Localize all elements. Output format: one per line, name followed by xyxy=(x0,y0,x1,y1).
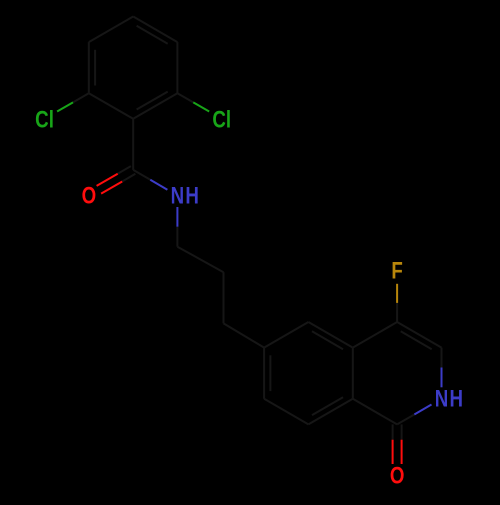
double bond inner C5-C4a xyxy=(312,331,343,349)
atom label Cl2 xyxy=(212,107,231,134)
bond C6-C5 (ring2) xyxy=(264,322,308,348)
bond C2a-Cl2 (half Cl2) xyxy=(193,102,209,111)
double bond inner C4-C3 xyxy=(401,331,432,349)
bond C4-C3 (ring3) xyxy=(397,322,441,348)
double bond C1=O2 line-1 C-half xyxy=(401,424,403,439)
bond C4-F (half C4) xyxy=(396,303,398,322)
bond C(=O)-N1 (half C1p) xyxy=(133,170,150,180)
bond C1a-C(=O) xyxy=(132,119,134,170)
double bond inner C1a-C2a xyxy=(137,92,168,110)
svg-text:N: N xyxy=(171,182,185,209)
bond C3a-C4a (ring1) xyxy=(133,17,177,43)
bond C1a-C2a (ring1) xyxy=(133,93,177,119)
bond C3-N2 (half N2) xyxy=(441,368,443,388)
atom label N2 (NH) xyxy=(435,386,449,413)
double bond C1=O2 line+1 O-half xyxy=(392,440,394,464)
double bond inner C5a-C6a xyxy=(94,50,96,86)
bond C4a-C4 (ring3) xyxy=(353,322,397,348)
bond C3-N2 (half C3) xyxy=(441,348,443,368)
bond CH2a-CH2b xyxy=(177,247,223,273)
bond C2a-Cl2 (half P2) xyxy=(177,93,193,102)
bond N1-CH2a (half A) xyxy=(176,227,178,247)
bond N1-CH2a (half N1) xyxy=(176,207,178,227)
double bond inner C8a-C8 xyxy=(312,397,343,415)
bond C4-F (half F) xyxy=(396,284,398,303)
bond C6a-Cl1 (half P6) xyxy=(73,93,89,102)
double bond C=O1 line+1 O-half xyxy=(97,174,118,186)
atom label Cl1 xyxy=(35,107,54,134)
bond C5a-C6a (ring1) xyxy=(88,42,90,93)
bond C7-C6 (ring2) xyxy=(263,348,265,399)
bond CH2c-C6(ring2) xyxy=(224,323,265,347)
bond C4a-C5a (ring1) xyxy=(89,17,133,43)
atom label F xyxy=(391,257,402,284)
bond C2a-C3a (ring1) xyxy=(176,42,178,93)
svg-text:Cl: Cl xyxy=(35,107,54,134)
bond C8a-C8 (ring2) xyxy=(308,399,352,425)
double bond C1=O2 line-1 O-half xyxy=(401,440,403,464)
svg-text:O: O xyxy=(82,182,97,209)
bond C4a-C8a (ring2) xyxy=(352,348,354,399)
svg-text:F: F xyxy=(391,257,402,284)
svg-text:Cl: Cl xyxy=(212,107,231,134)
double bond C=O1 line-1 O-half xyxy=(101,182,122,194)
double bond C1=O2 line+1 C-half xyxy=(392,424,394,439)
bond CH2b-CH2c xyxy=(223,272,225,323)
bond C8-C7 (ring2) xyxy=(264,399,308,425)
double bond C=O1 line+1 C-half xyxy=(118,166,131,174)
double bond inner C7-C6 xyxy=(269,355,271,391)
double bond C=O1 line-1 C-half xyxy=(122,174,135,182)
double bond inner C3a-C4a xyxy=(137,26,168,44)
bond C6a-C1a (ring1) xyxy=(89,93,133,119)
atom label O2 xyxy=(390,462,405,489)
atom label N1 (NH) xyxy=(171,182,185,209)
bond C6a-Cl1 (half Cl1) xyxy=(57,102,73,111)
svg-text:N: N xyxy=(435,386,449,413)
bond N2-C1 (half N2) xyxy=(414,405,431,415)
bond N2-C1 (half C1) xyxy=(397,415,414,425)
bond C5-C4a (ring2) xyxy=(308,322,352,348)
bond C1-C8a (ring3) xyxy=(353,399,397,425)
bond C(=O)-N1 (half N1) xyxy=(150,180,167,190)
svg-text:H: H xyxy=(449,386,463,413)
svg-text:H: H xyxy=(185,182,199,209)
svg-text:O: O xyxy=(390,462,405,489)
atom label O1 xyxy=(82,182,97,209)
